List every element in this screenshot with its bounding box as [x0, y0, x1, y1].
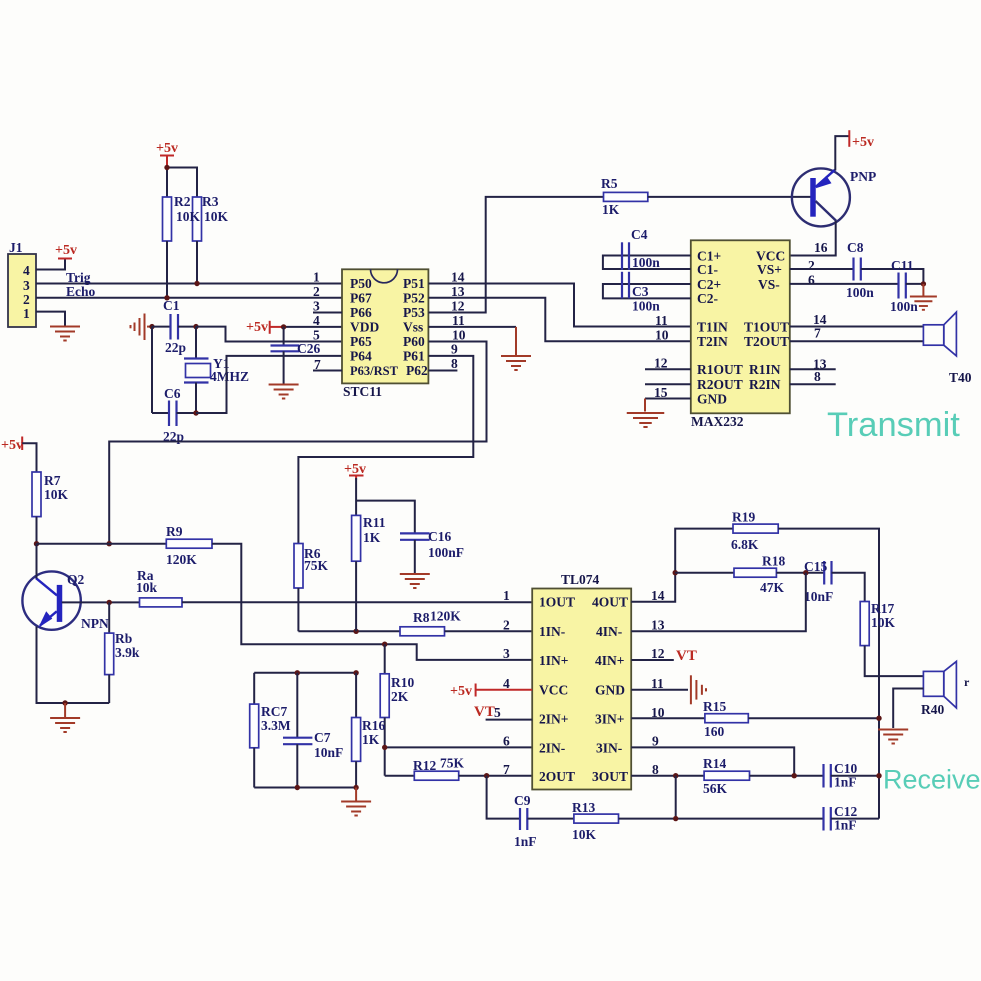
svg-text:10nF: 10nF: [314, 745, 343, 760]
svg-text:R14: R14: [703, 756, 726, 771]
svg-text:7: 7: [503, 762, 510, 777]
wire R11 branch to C16: [356, 501, 415, 533]
wire R7 bottom to collector node: [36, 517, 38, 544]
svg-text:1IN+: 1IN+: [539, 653, 568, 668]
transistor Q2 NPN: [22, 571, 109, 631]
node junction VS: [921, 281, 926, 286]
wire TL074 pin13 to C15 node: [631, 573, 806, 632]
power +5v PNP: [849, 130, 874, 150]
svg-text:GND: GND: [697, 391, 727, 406]
svg-text:T40: T40: [949, 370, 972, 385]
ground J1: [50, 327, 80, 341]
node junction pin8 left: [673, 773, 678, 778]
wire TL074 pin6 line: [385, 746, 533, 748]
svg-text:R2: R2: [174, 194, 191, 209]
resistor R3: [174, 194, 229, 241]
node junction VDD: [281, 324, 286, 329]
crystal Y1 4MHZ: [184, 327, 249, 413]
node junction R2R3: [164, 165, 169, 170]
svg-text:T2IN: T2IN: [697, 334, 728, 349]
svg-text:4: 4: [23, 263, 30, 278]
svg-text:1nF: 1nF: [514, 834, 537, 849]
wire R10 bottom to pin6 node: [384, 718, 386, 776]
node junction emitter ground: [62, 700, 67, 705]
capacitor C4 100n: [603, 227, 691, 270]
svg-text:P67: P67: [350, 291, 372, 306]
svg-text:MAX232: MAX232: [691, 414, 744, 429]
svg-text:10K: 10K: [204, 209, 229, 224]
wire R11 bottom to pin2 line: [355, 561, 357, 631]
op-amp U3 TL074: [532, 572, 631, 790]
wire MAX R1OUT stub: [645, 368, 691, 370]
capacitor C9 1nF: [514, 793, 537, 849]
capacitor C16 100nF: [400, 529, 464, 574]
svg-text:10: 10: [452, 328, 466, 343]
resistor R7 10K: [32, 472, 69, 517]
svg-text:2IN-: 2IN-: [539, 740, 565, 755]
svg-text:RC7: RC7: [261, 704, 287, 719]
capacitor C26: [271, 327, 321, 384]
wire MAX VS+ to C8: [790, 268, 854, 270]
node junction R16 bottom: [353, 785, 358, 790]
resistor R8 120K: [400, 609, 461, 636]
wire C12 to right vertical: [831, 818, 879, 820]
svg-text:9: 9: [451, 342, 458, 357]
wire +5v to R7: [22, 443, 36, 472]
resistor RC7 3.3M: [250, 673, 291, 788]
wire C11 to VS junction: [906, 283, 924, 285]
node junction R11 pin2: [353, 629, 358, 634]
svg-text:120K: 120K: [166, 552, 197, 567]
svg-text:P52: P52: [403, 291, 425, 306]
svg-text:C2-: C2-: [697, 291, 718, 306]
svg-text:Transmit: Transmit: [827, 406, 960, 444]
power +5v R2 R3: [156, 141, 178, 168]
wire STC pin7 stub: [313, 370, 342, 372]
svg-text:R15: R15: [703, 699, 726, 714]
svg-text:11: 11: [452, 313, 465, 328]
svg-text:3OUT: 3OUT: [592, 769, 628, 784]
power +5v VDD: [246, 320, 284, 335]
svg-text:10K: 10K: [871, 615, 896, 630]
svg-text:100n: 100n: [632, 299, 660, 314]
wire C1 left down to C6: [151, 327, 153, 413]
wire MAX R1IN stub: [790, 368, 836, 370]
op-amp U1 STC11 microcontroller: [342, 269, 428, 399]
svg-text:2OUT: 2OUT: [539, 769, 575, 784]
capacitor C10 1nF: [824, 761, 858, 790]
svg-text:2: 2: [808, 258, 815, 273]
wire R18 to C15: [776, 572, 823, 574]
svg-text:C16: C16: [428, 529, 451, 544]
node junction base Rb: [107, 600, 112, 605]
svg-text:+5v: +5v: [156, 141, 178, 156]
svg-text:8: 8: [451, 356, 458, 371]
wire R8 to TL074 pin2: [445, 630, 533, 632]
node junction R3-Trig: [194, 281, 199, 286]
wire STC pin10 long to receive node: [109, 342, 486, 544]
svg-text:C6: C6: [164, 386, 181, 401]
svg-text:NPN: NPN: [81, 616, 109, 631]
wire R2 R3 top node: [166, 168, 168, 198]
transistor Q1 PNP: [792, 168, 876, 226]
svg-text:3IN+: 3IN+: [595, 712, 624, 727]
ground rotated TL074 GND: [691, 675, 706, 704]
svg-text:+5v: +5v: [246, 320, 268, 335]
wire C8 to corner down: [861, 269, 924, 284]
svg-text:R8: R8: [413, 610, 430, 625]
wire MAX GND pin15: [645, 398, 691, 400]
svg-text:T2OUT: T2OUT: [744, 334, 789, 349]
wire node A to STC pin5: [196, 327, 342, 342]
node junction R18 C15 pin13: [803, 570, 808, 575]
node junction R7 R9 collector: [34, 541, 39, 546]
wire J1 pin4 to +5v: [36, 260, 65, 270]
svg-text:T1OUT: T1OUT: [744, 319, 789, 334]
wire Q2 collector: [36, 544, 38, 579]
svg-text:3: 3: [503, 646, 510, 661]
node junction R15 vertical: [876, 716, 881, 721]
svg-text:7: 7: [814, 326, 821, 341]
svg-text:2IN+: 2IN+: [539, 712, 568, 727]
node junction C7 top: [295, 670, 300, 675]
node C6 right junction: [193, 410, 198, 415]
svg-text:4: 4: [313, 313, 320, 328]
svg-text:13: 13: [651, 618, 665, 633]
svg-text:r: r: [964, 675, 970, 689]
svg-text:VDD: VDD: [350, 319, 379, 334]
ground rotated left of C1: [131, 314, 153, 341]
svg-text:VT: VT: [676, 648, 697, 664]
svg-text:P62: P62: [406, 363, 428, 378]
svg-text:VCC: VCC: [539, 683, 568, 698]
wire PNP emitter to +5v: [835, 136, 849, 170]
wire MAX T2OUT to T40: [790, 340, 924, 342]
resistor R15 160: [703, 699, 748, 739]
svg-text:P64: P64: [350, 348, 372, 363]
svg-text:2: 2: [313, 284, 320, 299]
svg-text:12: 12: [651, 646, 665, 661]
wire TL074 pin5 stub: [486, 719, 533, 721]
capacitor C12 1nF: [824, 804, 858, 833]
svg-text:1K: 1K: [602, 202, 620, 217]
svg-text:14: 14: [651, 588, 665, 603]
capacitor C11 100n: [890, 258, 918, 314]
svg-text:6: 6: [503, 734, 510, 749]
svg-text:C1: C1: [163, 298, 180, 313]
svg-text:R2IN: R2IN: [749, 377, 781, 392]
wire R18 row from node: [675, 572, 734, 574]
svg-text:9: 9: [652, 734, 659, 749]
node C1 left junction: [149, 324, 154, 329]
resistor R9 120K: [166, 524, 212, 567]
svg-text:1K: 1K: [363, 530, 381, 545]
resistor R11 1K: [352, 478, 386, 561]
svg-text:R3: R3: [202, 194, 219, 209]
svg-text:100n: 100n: [890, 299, 918, 314]
wire node B to STC pin6: [196, 356, 342, 413]
capacitor C3 100n: [603, 272, 691, 314]
wire MAX R2IN stub: [790, 383, 836, 385]
wire TL074 pin8 line: [631, 775, 704, 777]
wire STC pin11 Vss to ground: [428, 326, 516, 328]
svg-text:10: 10: [655, 328, 669, 343]
wire TL074 pin9 to pin8 line: [631, 747, 794, 775]
svg-text:2: 2: [23, 292, 30, 307]
svg-text:GND: GND: [595, 683, 625, 698]
ground C8 C11: [910, 284, 937, 310]
ground C26: [269, 385, 299, 399]
node junction C7 bottom: [295, 785, 300, 790]
svg-text:1nF: 1nF: [834, 818, 857, 833]
svg-text:R18: R18: [762, 554, 785, 569]
speaker T40: [923, 312, 971, 385]
wire MAX VS- to C11: [790, 283, 899, 285]
svg-text:R1IN: R1IN: [749, 362, 781, 377]
wire C15 to R17: [832, 573, 865, 602]
wire pin8 node down to C12 line: [675, 776, 677, 819]
svg-text:VS+: VS+: [757, 262, 782, 277]
svg-text:C8: C8: [847, 240, 864, 255]
wire TL074 pin2 line: [298, 630, 400, 632]
svg-text:C7: C7: [314, 730, 331, 745]
svg-text:160: 160: [704, 724, 725, 739]
node junction P60 line R9: [107, 541, 112, 546]
svg-text:R12: R12: [413, 758, 436, 773]
svg-text:TL074: TL074: [561, 572, 600, 587]
wire TL074 pin12 stub VT: [631, 648, 697, 664]
svg-text:4MHZ: 4MHZ: [210, 369, 249, 384]
resistor R17 10K: [860, 601, 895, 646]
svg-text:P53: P53: [403, 305, 425, 320]
resistor R18 47K: [734, 554, 785, 596]
svg-text:+5v: +5v: [1, 438, 23, 453]
ground Vss: [501, 327, 531, 370]
svg-text:1OUT: 1OUT: [539, 595, 575, 610]
svg-text:3.9k: 3.9k: [115, 645, 140, 660]
wire speaker bottom to ground: [893, 689, 923, 729]
svg-text:12: 12: [654, 356, 668, 371]
svg-text:100n: 100n: [846, 285, 874, 300]
svg-text:STC11: STC11: [343, 384, 382, 399]
svg-text:8: 8: [814, 369, 821, 384]
svg-text:C9: C9: [514, 793, 531, 808]
power +5v TL074 VCC: [450, 684, 532, 700]
svg-text:C15: C15: [804, 559, 827, 574]
ground receive mid: [341, 788, 371, 816]
node junction R14 pin9: [792, 773, 797, 778]
svg-text:Receive: Receive: [883, 765, 981, 795]
node junction C10 vertical: [876, 773, 881, 778]
svg-text:R7: R7: [44, 473, 61, 488]
wire R9 to TL074 pin3: [212, 544, 532, 660]
wire C10 to right vertical: [831, 775, 879, 777]
node junction pin7 C9: [484, 773, 489, 778]
resistor R6 75K: [294, 544, 329, 589]
wire PNP collector to MAX VCC: [790, 221, 836, 256]
svg-text:+5v: +5v: [852, 135, 874, 150]
svg-text:6.8K: 6.8K: [731, 537, 759, 552]
wire STC pin9 to R6: [298, 356, 473, 544]
svg-text:56K: 56K: [703, 781, 728, 796]
resistor R14 56K: [703, 756, 750, 796]
wire RC7 top line: [254, 672, 356, 674]
svg-text:10K: 10K: [176, 209, 201, 224]
svg-text:C4: C4: [631, 227, 648, 242]
svg-text:J1: J1: [9, 240, 23, 255]
wire Echo net: [36, 297, 342, 299]
svg-text:+5v: +5v: [55, 243, 77, 258]
svg-text:C3: C3: [632, 284, 649, 299]
wire R17 bottom to speaker top: [865, 646, 924, 677]
resistor R10 2K: [380, 644, 414, 717]
svg-text:10nF: 10nF: [804, 589, 833, 604]
svg-text:3: 3: [23, 278, 30, 293]
ground C16: [400, 574, 430, 588]
svg-text:P66: P66: [350, 305, 372, 320]
node junction R13 C12: [673, 816, 678, 821]
ground MAX GND: [627, 399, 665, 428]
svg-text:R17: R17: [871, 601, 894, 616]
svg-text:3: 3: [313, 299, 320, 314]
wire MAX R2OUT stub: [645, 383, 691, 385]
svg-text:Rb: Rb: [115, 631, 132, 646]
svg-text:10K: 10K: [572, 827, 597, 842]
wire R12 to pin7: [459, 775, 533, 777]
svg-text:P61: P61: [403, 348, 425, 363]
svg-text:12: 12: [451, 299, 465, 314]
svg-text:R5: R5: [601, 176, 618, 191]
node junction R16 top: [353, 670, 358, 675]
svg-text:2: 2: [503, 618, 510, 633]
wire R14 to C10: [750, 775, 824, 777]
svg-text:1: 1: [23, 306, 30, 321]
svg-text:3IN-: 3IN-: [596, 740, 622, 755]
node C1 right junction: [193, 324, 198, 329]
svg-text:4IN+: 4IN+: [595, 653, 624, 668]
svg-text:100n: 100n: [632, 255, 660, 270]
svg-text:Trig: Trig: [66, 270, 91, 285]
capacitor C1 22p: [152, 298, 196, 355]
wire TL074 pin14 to feedback node: [631, 529, 733, 602]
svg-text:P63/RST: P63/RST: [350, 364, 399, 378]
svg-text:T1IN: T1IN: [697, 319, 728, 334]
svg-text:C2+: C2+: [697, 277, 721, 292]
wire STC pin13 to MAX232 T2IN: [428, 298, 690, 341]
resistor Ra 10k: [136, 568, 182, 607]
wire C9 to R13: [527, 818, 574, 820]
svg-text:1: 1: [503, 588, 510, 603]
capacitor C8 100n: [846, 240, 874, 300]
resistor R16 1K: [352, 673, 386, 788]
svg-text:R19: R19: [732, 510, 755, 525]
wire Trig net: [36, 283, 342, 285]
capacitor C15 10nF: [804, 559, 833, 604]
svg-text:R10: R10: [391, 675, 414, 690]
wire R5 to PNP base: [648, 196, 812, 198]
capacitor C7 10nF: [283, 673, 343, 788]
wire TL074 pin11 to ground: [631, 689, 688, 691]
svg-text:5: 5: [313, 328, 320, 343]
svg-text:3.3M: 3.3M: [261, 718, 291, 733]
wire STC pin12 to R5: [428, 197, 603, 313]
svg-text:5: 5: [494, 705, 501, 720]
wire Ra to TL074 pin1: [182, 601, 532, 603]
svg-text:1IN-: 1IN-: [539, 624, 565, 639]
svg-text:13: 13: [451, 284, 465, 299]
svg-text:P51: P51: [403, 276, 425, 291]
svg-text:C26: C26: [297, 341, 320, 356]
svg-text:PNP: PNP: [850, 169, 876, 184]
svg-text:22p: 22p: [165, 340, 186, 355]
wire R15 to right vertical: [748, 717, 879, 719]
svg-text:1nF: 1nF: [834, 775, 857, 790]
svg-text:R2OUT: R2OUT: [697, 377, 743, 392]
resistor R19 6.8K: [731, 510, 778, 553]
svg-text:2K: 2K: [391, 689, 409, 704]
resistor R13 10K: [572, 800, 619, 842]
power +5v R11: [344, 462, 366, 480]
svg-text:75K: 75K: [304, 558, 329, 573]
speaker R40: [921, 661, 970, 717]
wire R13 to C12: [619, 818, 824, 820]
svg-text:1: 1: [313, 270, 320, 285]
svg-text:47K: 47K: [760, 580, 785, 595]
wire RC7 bottom line: [254, 787, 356, 789]
svg-text:6: 6: [808, 273, 815, 288]
connector J1: [8, 240, 36, 327]
svg-text:75K: 75K: [440, 756, 465, 771]
svg-text:C1-: C1-: [697, 262, 718, 277]
svg-text:100nF: 100nF: [428, 545, 464, 560]
resistor R5 1K: [601, 176, 648, 217]
wire R3 bottom to Trig: [196, 241, 198, 284]
resistor R2: [163, 197, 172, 241]
node junction 4OUT feedback: [673, 570, 678, 575]
svg-text:10K: 10K: [44, 487, 69, 502]
wire J1 pin1 to ground: [36, 312, 65, 326]
wire R2 bottom to Echo: [166, 241, 168, 298]
svg-text:4IN-: 4IN-: [596, 624, 622, 639]
svg-text:R1OUT: R1OUT: [697, 362, 743, 377]
resistor R12 75K: [385, 756, 465, 781]
wire Q2 emitter to ground line: [37, 627, 110, 704]
wire TL074 pin10 to R15: [631, 717, 705, 719]
wire STC pin3 stub: [313, 312, 342, 314]
svg-text:16: 16: [814, 240, 828, 255]
node junction R2-Echo: [164, 295, 169, 300]
svg-text:Echo: Echo: [66, 284, 96, 299]
svg-text:R40: R40: [921, 702, 944, 717]
ground R40: [878, 730, 908, 744]
wire STC pin8 stub: [428, 370, 457, 372]
svg-text:+5v: +5v: [450, 684, 472, 699]
svg-text:Q2: Q2: [67, 572, 85, 587]
wire R9 line: [37, 543, 167, 545]
svg-text:VS-: VS-: [758, 277, 780, 292]
svg-text:11: 11: [655, 313, 668, 328]
wire MAX T1OUT to T40: [790, 326, 924, 328]
svg-text:P65: P65: [350, 334, 372, 349]
svg-text:R16: R16: [362, 718, 385, 733]
resistor Rb 3.9k: [105, 602, 140, 703]
svg-text:R11: R11: [363, 515, 386, 530]
svg-text:C11: C11: [891, 258, 914, 273]
svg-text:R13: R13: [572, 800, 595, 815]
wire R6 bottom to pin2 line: [297, 588, 299, 631]
svg-text:Vss: Vss: [403, 319, 423, 334]
wire VDD pin4: [284, 326, 342, 328]
